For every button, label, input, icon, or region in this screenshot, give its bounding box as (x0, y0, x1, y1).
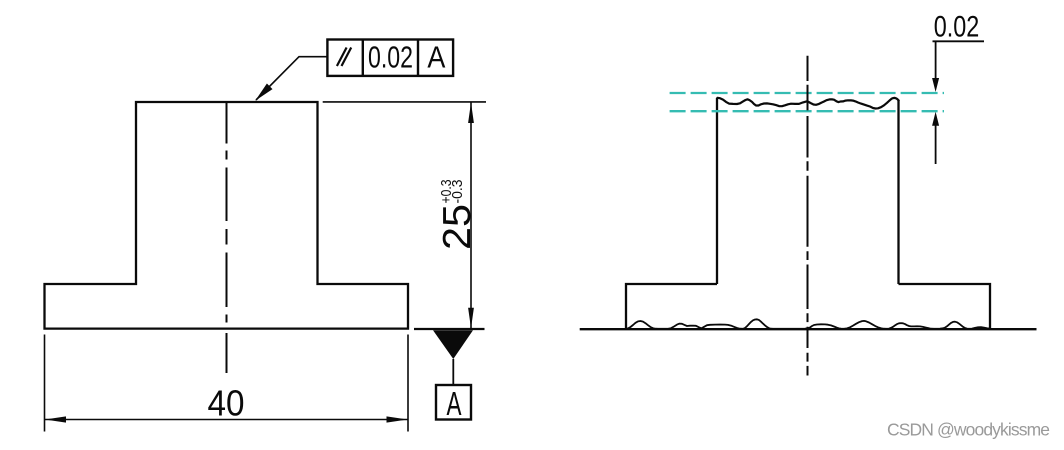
right view shoulder left (626, 284, 717, 328)
tolerance zone lower dashed line (670, 110, 944, 112)
leader arrowhead (255, 84, 272, 101)
feature control frame (327, 40, 453, 76)
arrowhead 40 right (387, 416, 408, 422)
dimension text 25 +0.3/-0.3 (436, 180, 479, 251)
svg-text:A: A (447, 385, 462, 422)
label 0.02 underline (933, 40, 985, 42)
part outline left view (45, 102, 409, 329)
arrowhead up at lower zone line (932, 112, 939, 126)
leader wire (256, 57, 327, 100)
datum A box (436, 385, 471, 420)
svg-text:0.02: 0.02 (368, 40, 413, 75)
parallelism symbol (337, 48, 351, 67)
right view top actual surface wavy (717, 98, 898, 109)
svg-text:CSDN @woodykissme: CSDN @woodykissme (887, 420, 1050, 440)
datum bottom extension line (414, 328, 485, 330)
label arrow line upper (935, 41, 937, 80)
svg-text:-0.3: -0.3 (449, 180, 466, 204)
extension line top for dim 25 (323, 101, 486, 103)
arrowhead 25 top (468, 103, 474, 124)
centerline left view (226, 102, 228, 373)
arrowhead down at upper zone line (932, 78, 939, 92)
svg-text:40: 40 (208, 383, 245, 424)
datum A triangle (433, 330, 473, 359)
extension line 40 left (44, 335, 46, 432)
datum plane line (580, 328, 1037, 330)
label arrow line lower (935, 124, 937, 164)
right view shoulder right (899, 284, 991, 328)
svg-text:A: A (427, 40, 445, 75)
right view stem left edge (716, 98, 718, 284)
bottom actual surface wavy (626, 319, 990, 329)
right view stem right edge (897, 100, 899, 284)
extension line 40 right (407, 335, 409, 432)
tolerance zone upper dashed line (670, 92, 944, 94)
arrowhead 40 left (45, 416, 66, 422)
svg-text:25: 25 (436, 204, 479, 250)
arrowhead 25 bottom (468, 308, 474, 329)
datum A stem (452, 359, 454, 385)
svg-text:0.02: 0.02 (934, 11, 980, 44)
dimension line 40 (45, 419, 409, 421)
centerline right view (807, 56, 809, 376)
dimension line 25 (470, 103, 472, 329)
